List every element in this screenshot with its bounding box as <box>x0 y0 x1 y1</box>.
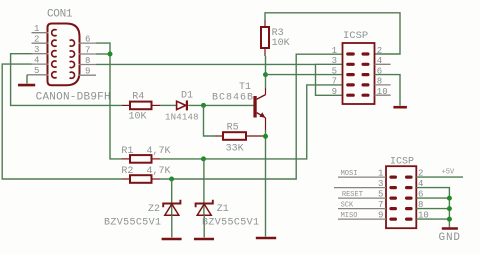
svg-text:10K: 10K <box>129 112 147 123</box>
ground below Z1 <box>194 238 214 241</box>
svg-text:Z1: Z1 <box>217 204 229 215</box>
ground below T1 <box>256 237 276 240</box>
wire CON1 pin4 to R2 <box>2 64 122 179</box>
svg-text:R2: R2 <box>121 166 133 177</box>
svg-text:2: 2 <box>377 46 382 56</box>
svg-text:4: 4 <box>34 56 39 66</box>
svg-text:10K: 10K <box>272 38 290 49</box>
svg-text:GND: GND <box>439 232 461 244</box>
wire R2 to junction and ICSP pin1 <box>160 54 343 179</box>
svg-text:Z2: Z2 <box>148 204 160 215</box>
svg-text:5: 5 <box>34 66 39 76</box>
ICSP2 left stubs <box>334 177 386 219</box>
svg-text:2: 2 <box>34 35 39 45</box>
wire R3 top to ICSP pin2 <box>265 13 400 54</box>
svg-text:RESET: RESET <box>342 191 363 199</box>
ICSP2 pads <box>389 176 412 221</box>
wire R4 to D1 <box>160 104 176 106</box>
svg-text:9: 9 <box>332 87 337 97</box>
svg-text:7: 7 <box>332 77 337 87</box>
svg-text:4,7K: 4,7K <box>147 166 171 177</box>
ICSP1 pads and pins <box>346 52 369 96</box>
svg-text:R1: R1 <box>121 146 133 157</box>
wire CON1 pin6/pin7 to R1 <box>96 43 122 159</box>
svg-text:R4: R4 <box>132 91 144 102</box>
svg-text:BC846B: BC846B <box>212 92 253 103</box>
ICSP1 pin8 stub <box>375 84 391 86</box>
svg-text:BZV55C5V1: BZV55C5V1 <box>104 218 161 229</box>
svg-text:1N4148: 1N4148 <box>165 112 199 122</box>
wire CON1 pin8 to ICSP pin3/pin9 <box>96 64 343 95</box>
zener diode Z1 BZV55C5V1 <box>196 200 259 238</box>
wire ICSP pin3 <box>316 63 343 65</box>
svg-text:5: 5 <box>332 66 337 76</box>
CON1 pin 7 <box>79 45 97 55</box>
ground at ICSP2 <box>442 227 458 230</box>
wire CON1 pin7 stub <box>96 53 110 55</box>
resistor R3 <box>261 20 290 56</box>
svg-text:1: 1 <box>332 46 337 56</box>
ground below Z2 <box>162 238 182 241</box>
wire ICSP2 pin2 +5V <box>416 176 463 178</box>
ground at CON1 pin 5 <box>18 75 35 85</box>
wire R3 bottom to collector <box>265 56 267 88</box>
wire ICSP1 pin6 to ground <box>375 75 401 106</box>
svg-text:6: 6 <box>85 35 90 45</box>
svg-text:3: 3 <box>34 45 39 55</box>
svg-text:R5: R5 <box>227 122 239 133</box>
svg-text:MISO: MISO <box>341 212 358 220</box>
svg-text:+5V: +5V <box>442 169 455 177</box>
CON1 pin 6 <box>79 35 97 45</box>
node collector junction <box>263 72 268 77</box>
node R1 right junction <box>201 156 206 161</box>
ICSP1 pin4 stub <box>375 63 391 65</box>
wire emitter to ground <box>265 130 267 237</box>
CON1 pin 1 <box>32 24 49 34</box>
svg-text:D1: D1 <box>181 90 193 101</box>
ICSP1 pin numbers left <box>332 46 337 97</box>
wire CON1 pin3 to R4 <box>11 54 122 106</box>
svg-text:9: 9 <box>85 67 90 77</box>
svg-text:1: 1 <box>34 24 39 34</box>
node gnd rail pin8 <box>447 206 452 211</box>
ICSP1 pin numbers right <box>377 46 388 97</box>
CON1 pin 9 <box>79 67 97 77</box>
svg-text:SCK: SCK <box>341 202 354 210</box>
svg-text:8: 8 <box>85 56 90 66</box>
ICSP1 pin10 stub <box>375 94 391 96</box>
svg-text:4,7K: 4,7K <box>147 146 171 157</box>
diode D1 1N4148 <box>165 90 199 122</box>
node R2 right junction <box>169 177 174 182</box>
CON1 pin 8 <box>79 56 97 66</box>
CON1 pin 4 <box>32 56 49 66</box>
resistor R1 <box>121 146 170 163</box>
wire R1 junction down to Z1 <box>203 159 205 215</box>
node junction pin6/pin7 <box>108 52 113 57</box>
connector CON1 (DB9 female CANON-DB9FH) <box>36 8 111 103</box>
svg-text:3: 3 <box>332 56 337 66</box>
ground at ICSP1 pin6 <box>393 106 407 109</box>
wire R1 to junction and ICSP pin7 <box>160 85 343 159</box>
CON1 pin 5 <box>27 66 49 76</box>
transistor T1 BC846B <box>212 82 266 130</box>
pin header ICSP (bottom) <box>386 157 416 229</box>
zener diode Z2 BZV55C5V1 <box>104 200 180 238</box>
node base junction <box>201 103 206 108</box>
wire ICSP2 pin10 <box>416 218 449 220</box>
wire ICSP2 pin6 <box>416 197 449 199</box>
wire D1 to T1 base <box>188 104 254 106</box>
resistor R5 <box>215 122 266 154</box>
node gnd rail pin10 <box>447 217 452 222</box>
wire ICSP2 pin8 <box>416 208 449 210</box>
ICSP2 pin numbers right <box>418 169 429 221</box>
svg-text:CON1: CON1 <box>47 8 73 20</box>
svg-text:7: 7 <box>85 45 90 55</box>
svg-text:33K: 33K <box>226 144 244 155</box>
wire ICSP2 pin4 to ground rail <box>416 188 449 228</box>
svg-text:CANON-DB9FH: CANON-DB9FH <box>36 91 111 103</box>
svg-text:BZV55C5V1: BZV55C5V1 <box>202 218 259 229</box>
svg-text:ICSP: ICSP <box>343 30 368 42</box>
resistor R4 <box>122 91 160 122</box>
CON1 pin 2 <box>32 35 49 45</box>
node gnd rail pin6 <box>447 196 452 201</box>
svg-text:MOSI: MOSI <box>341 170 358 178</box>
node emitter/R5 junction <box>263 134 268 139</box>
wire collector junction to ICSP pin5 <box>266 74 343 76</box>
ICSP2 pin numbers left <box>378 169 383 221</box>
CON1 pin 3 <box>32 45 49 55</box>
wire base junction down to R5 <box>204 105 216 136</box>
pin header ICSP (top) <box>343 30 375 104</box>
wire R2 junction down to Z2 <box>171 179 173 215</box>
resistor R2 <box>121 166 170 183</box>
